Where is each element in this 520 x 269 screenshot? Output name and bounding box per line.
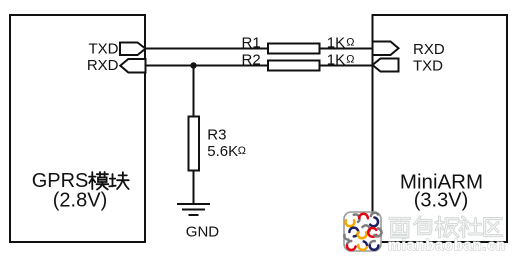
resistor R1 body [268, 44, 320, 54]
pin label TXD (GPRS) [89, 41, 119, 58]
svg-text:R3: R3 [207, 127, 226, 144]
wire R3 to ground [193, 170, 195, 204]
svg-text:Ω: Ω [346, 53, 354, 65]
label MiniARM [400, 171, 483, 194]
svg-text:Ω: Ω [238, 145, 246, 157]
label R1 [242, 34, 261, 51]
label GPRS模块 [32, 170, 129, 192]
svg-text:TXD: TXD [89, 41, 119, 58]
svg-text:1K: 1K [327, 34, 345, 51]
pin RXD of MiniARM box (input, tip right) [373, 42, 399, 56]
svg-text:TXD: TXD [413, 57, 443, 74]
watermark text 面包板社区 [390, 217, 502, 237]
wire TXD net (upper) right segment [320, 48, 374, 50]
svg-text:R2: R2 [242, 51, 261, 68]
wire TXD net (upper) left segment [144, 48, 268, 50]
wire junction to R3 [193, 66, 195, 118]
svg-text:RXD: RXD [413, 41, 445, 58]
resistor R2 body [268, 61, 320, 71]
value 5.6KΩ (R3) [207, 143, 246, 160]
pin label RXD (GPRS) [87, 57, 119, 74]
svg-text:(2.8V): (2.8V) [53, 190, 107, 212]
label (2.8V) [53, 190, 107, 212]
value 1KΩ (R2) [327, 51, 355, 68]
svg-text:R1: R1 [242, 34, 261, 51]
label GND [186, 224, 220, 241]
MiniARM box U2 [373, 15, 508, 242]
pin label TXD (MiniARM) [413, 57, 443, 74]
svg-text:(3.3V): (3.3V) [414, 190, 468, 212]
svg-text:RXD: RXD [87, 57, 119, 74]
watermark text mianbaoban.cn [388, 238, 506, 254]
label R3 [207, 127, 226, 144]
svg-text:mianbaoban.cn: mianbaoban.cn [388, 238, 506, 254]
watermark logo (mianbaoban) [344, 212, 382, 251]
value 1KΩ (R1) [327, 34, 355, 51]
resistor R3 body [189, 117, 200, 171]
pin label RXD (MiniARM) [413, 41, 445, 58]
label (3.3V) [414, 190, 468, 212]
svg-text:GND: GND [186, 224, 220, 241]
wire RXD net (lower) left segment [144, 65, 268, 67]
junction dot on RXD net [190, 62, 196, 68]
label R2 [242, 51, 261, 68]
ground symbol [177, 204, 210, 215]
pin TXD of MiniARM box (tip left) [373, 59, 399, 72]
svg-text:5.6K: 5.6K [207, 143, 238, 160]
pin RXD of GPRS box (input, tip left) [120, 59, 145, 73]
GPRS module box U1 [10, 15, 145, 242]
pin TXD of GPRS box (output, tip right) [120, 43, 146, 56]
svg-text:1K: 1K [327, 51, 345, 68]
svg-text:Ω: Ω [346, 36, 354, 48]
wire RXD net (lower) right segment [320, 65, 374, 67]
